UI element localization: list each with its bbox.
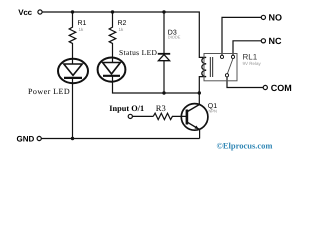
svg-text:R3: R3 [156,103,166,113]
wire emitter to GND rail [199,130,201,139]
svg-text:1k: 1k [119,27,125,32]
diode D3 cathode bar [158,53,170,55]
terminal COM [263,85,267,89]
wire NC terminal to relay [233,41,261,56]
svg-text:Power LED: Power LED [28,87,70,96]
transistor Q1 collector line [188,104,200,111]
relay pin NC [231,55,234,58]
status LED ellipse [98,58,126,82]
status LED triangle [103,63,121,74]
relay coil RL1 winding [202,57,206,76]
svg-text:NC: NC [269,36,282,46]
emitter arrow [195,126,199,130]
svg-text:DIODE: DIODE [168,35,181,40]
wire LED2 cathode to collector node [113,76,200,93]
relay core lines [210,57,212,77]
svg-text:NPN: NPN [209,108,218,113]
wire Vcc top rail into relay coil top [42,12,206,57]
junction dot R1/Vcc [71,10,74,13]
wire relay COM pin to COM terminal [227,77,263,88]
transistor Q1 circle [181,104,208,131]
junction dot coil/collector node [198,91,201,94]
status LED bar [103,75,120,77]
terminal Vcc [38,10,42,14]
junction dot LED1/GND rail [71,137,74,140]
wire input terminal to R3 [132,115,153,117]
diode D3 triangle [158,55,169,61]
terminal NO [261,15,265,19]
terminal NC [261,39,265,43]
power LED ellipse [58,59,88,83]
terminal GND [37,136,41,140]
GND bottom rail [41,138,199,140]
resistor R3 [153,113,187,119]
svg-text:9V Relay: 9V Relay [243,61,262,66]
wire coil bottom to collector node [199,77,206,105]
transistor Q1 base bar [186,110,189,125]
relay pin COM [225,74,228,77]
svg-text:Input O/1: Input O/1 [109,104,144,113]
svg-text:1k: 1k [79,27,85,32]
terminal Input [128,114,132,118]
relay pin NO [220,55,223,58]
wire LED1 cathode to GND rail [72,78,74,139]
relay RL1 body rectangle [204,54,237,81]
junction dot R2/Vcc [111,10,114,13]
resistor R1 [69,12,76,64]
junction dot D3/collector node [162,91,165,94]
power LED bar [64,77,82,79]
diode D3 branch wire [163,12,165,93]
svg-text:©Elprocus.com: ©Elprocus.com [217,140,273,150]
svg-text:Status LED: Status LED [119,48,158,57]
svg-text:COM: COM [271,83,292,93]
wire NO terminal to relay [222,17,261,55]
junction dot D3/Vcc [162,10,165,13]
power LED triangle [64,64,82,75]
svg-text:NO: NO [269,13,283,23]
transistor Q1 emitter line [188,122,200,129]
relay armature [227,59,232,74]
svg-text:Vcc: Vcc [18,8,32,17]
resistor R2 [109,12,116,63]
svg-text:GND: GND [17,134,35,143]
